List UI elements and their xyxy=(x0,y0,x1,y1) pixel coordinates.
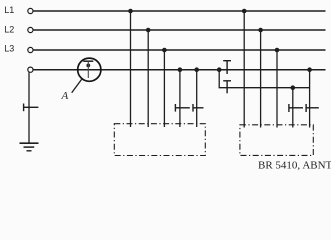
wire drop PEN-d to box2 xyxy=(309,70,311,128)
wire L3 xyxy=(33,49,325,51)
junction dot L2-b xyxy=(258,28,263,33)
svg-text:L3: L3 xyxy=(4,44,14,54)
junction dot L2-a xyxy=(146,28,151,33)
junction dot PE bus2 xyxy=(291,85,296,90)
terminal L1 xyxy=(28,8,33,13)
svg-text:L1: L1 xyxy=(4,5,14,15)
svg-text:BR 5410, ABNT: BR 5410, ABNT xyxy=(258,160,331,172)
pointer line to A xyxy=(72,79,82,92)
wire L1 xyxy=(33,10,325,12)
earth electrode E1 on source lead xyxy=(24,104,39,112)
wire drop L1 to box2 xyxy=(243,11,245,128)
junction dot PEN-b xyxy=(194,67,199,72)
terminal L3 xyxy=(28,47,33,52)
earth electrode E2 on PEN xyxy=(223,61,231,74)
wire drop PE bus2 to box2 xyxy=(292,88,294,128)
installation box 2 (dashed) xyxy=(240,125,313,156)
wire drop PEN-b to box1 xyxy=(196,70,198,127)
junction dot PEN-d xyxy=(307,67,312,72)
wire drop PEN-a to box1 xyxy=(179,70,181,127)
earth electrode E3 on PE bus2 xyxy=(223,81,231,94)
earth electrode E5 on box1 PE drop xyxy=(193,104,204,112)
wire source earth down-lead xyxy=(28,72,30,143)
earth electrode E7 on box2 PEN drop xyxy=(306,104,319,112)
terminal PEN xyxy=(28,67,33,72)
svg-text:A: A xyxy=(61,90,69,102)
wire PE bus2 L-shape xyxy=(219,70,309,88)
device A internal stem xyxy=(87,62,89,79)
wire drop L1 to box1 xyxy=(130,11,132,127)
junction dot L3-b xyxy=(275,48,280,53)
device A internal dot xyxy=(86,64,90,68)
svg-text:L2: L2 xyxy=(4,25,14,35)
junction dot L1-b xyxy=(242,9,247,14)
installation box 1 (dashed) xyxy=(114,124,205,156)
earth electrode E4 on box1 PE drop xyxy=(175,104,189,112)
wire drop L3 to box2 xyxy=(276,50,278,128)
earth electrode E6 on box2 PE drop xyxy=(289,104,303,112)
wire drop L2 to box2 xyxy=(260,30,262,128)
device A internal bar xyxy=(83,60,93,62)
device A circle xyxy=(78,58,101,81)
terminal L2 xyxy=(28,27,33,32)
ground symbol xyxy=(20,143,39,151)
junction dot PEN-c xyxy=(217,67,222,72)
junction dot L1-a xyxy=(128,9,133,14)
junction dot PEN-a xyxy=(178,67,183,72)
wire PEN xyxy=(33,69,325,71)
wire drop L2 to box1 xyxy=(147,30,149,127)
wire drop L3 to box1 xyxy=(163,50,165,127)
wire L2 xyxy=(33,29,325,31)
junction dot L3-a xyxy=(162,48,167,53)
